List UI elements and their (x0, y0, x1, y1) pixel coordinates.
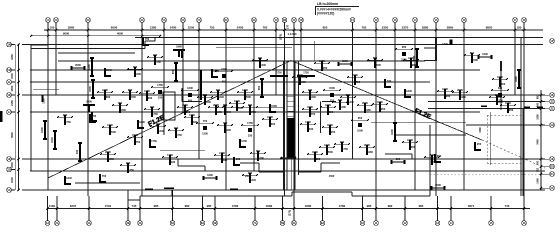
svg-text:2000: 2000 (75, 63, 81, 67)
svg-text:1160: 1160 (49, 204, 56, 208)
svg-text:1M: 1M (7, 68, 12, 72)
svg-text:D2: D2 (550, 165, 554, 169)
svg-text:750: 750 (203, 119, 208, 123)
svg-text:3A: 3A (86, 18, 90, 22)
svg-text:1230: 1230 (205, 100, 211, 104)
svg-text:330: 330 (338, 98, 343, 102)
svg-text:982: 982 (185, 204, 190, 208)
niche label right (329, 175, 335, 178)
svg-text:9000: 9000 (63, 32, 70, 36)
svg-text:900: 900 (153, 53, 158, 57)
svg-text:2400: 2400 (170, 26, 177, 30)
bottom edge wall pieces (145, 187, 238, 196)
svg-text:10: 10 (361, 221, 365, 225)
interior line y122 (371, 122, 466, 124)
svg-text:2000: 2000 (105, 150, 111, 154)
right diagonal label (413, 107, 432, 121)
svg-text:1500: 1500 (307, 105, 313, 109)
svg-text:900: 900 (411, 145, 416, 149)
building top edge (31, 38, 155, 49)
svg-text:1500: 1500 (342, 59, 348, 63)
svg-text:1500: 1500 (479, 127, 482, 133)
core flank wall right (297, 72, 315, 78)
svg-text:2A: 2A (54, 18, 58, 22)
interior line y47 (216, 47, 292, 49)
svg-text:170: 170 (287, 24, 290, 29)
svg-text:D1: D1 (550, 172, 554, 176)
svg-text:1230: 1230 (497, 99, 503, 103)
svg-text:1230: 1230 (310, 95, 316, 99)
svg-text:1750: 1750 (167, 153, 173, 157)
grid line C (22, 189, 545, 191)
svg-text:1750: 1750 (152, 112, 158, 116)
svg-text:1340: 1340 (242, 88, 248, 92)
svg-text:1960: 1960 (514, 76, 518, 82)
top dimension line (44, 29, 543, 31)
svg-text:1960: 1960 (365, 108, 371, 112)
right dimension line (540, 90, 549, 190)
svg-text:762: 762 (537, 167, 540, 172)
svg-text:1500: 1500 (329, 175, 335, 178)
svg-text:330: 330 (498, 86, 503, 90)
grid line L (30, 81, 430, 83)
svg-text:330: 330 (248, 134, 253, 138)
svg-text:330: 330 (203, 93, 208, 97)
svg-text:650: 650 (329, 110, 334, 114)
interior line y183 (75, 182, 140, 184)
left bubble leaders (11, 45, 15, 191)
svg-text:16: 16 (522, 221, 526, 225)
svg-text:1200: 1200 (135, 72, 141, 76)
svg-text:750: 750 (102, 174, 107, 178)
svg-text:6A: 6A (181, 18, 185, 22)
svg-text:1200: 1200 (120, 108, 126, 112)
left diagonal label (147, 114, 166, 128)
svg-text:1340: 1340 (66, 176, 72, 180)
svg-text:1C: 1C (7, 188, 11, 192)
interior vline 490 (489, 112, 491, 165)
svg-text:1200: 1200 (225, 128, 231, 132)
svg-text:2000: 2000 (245, 95, 251, 99)
top dimension numbers (50, 26, 522, 30)
svg-text:1500: 1500 (10, 162, 14, 168)
svg-text:2200: 2200 (188, 26, 195, 30)
left frame mark (0, 111, 3, 122)
svg-text:1400: 1400 (537, 178, 540, 184)
svg-text:12: 12 (403, 221, 407, 225)
svg-text:1340: 1340 (107, 123, 113, 127)
svg-text:1750: 1750 (128, 168, 134, 172)
svg-text:985: 985 (154, 204, 159, 208)
svg-text:7A: 7A (253, 221, 257, 225)
stepped wall outline stair entry (178, 159, 205, 171)
svg-text:7B: 7B (281, 221, 285, 225)
svg-text:1500: 1500 (10, 73, 14, 79)
bottom grid axis bubbles (45, 221, 526, 226)
svg-text:1340: 1340 (406, 89, 412, 93)
right grid axis bubbles (550, 39, 555, 191)
svg-text:2000: 2000 (435, 183, 441, 187)
svg-text:7A: 7A (197, 18, 201, 22)
svg-text:750: 750 (145, 37, 150, 41)
svg-text:3250: 3250 (10, 54, 14, 60)
svg-text:4080: 4080 (305, 204, 312, 208)
svg-text:250: 250 (381, 107, 386, 111)
svg-text:1960: 1960 (327, 123, 333, 127)
svg-text:900: 900 (63, 113, 68, 117)
svg-text:1750: 1750 (219, 151, 225, 155)
svg-text:1380: 1380 (150, 26, 157, 30)
svg-text:750: 750 (136, 140, 141, 144)
svg-text:6000: 6000 (111, 26, 118, 30)
svg-text:750: 750 (210, 26, 215, 30)
svg-text:J2: J2 (550, 100, 554, 104)
upper interior line (58, 60, 425, 62)
svg-text:985: 985 (419, 204, 424, 208)
svg-text:250: 250 (396, 157, 401, 161)
svg-text:4A: 4A (140, 18, 144, 22)
svg-text:985: 985 (207, 204, 212, 208)
svg-text:1A: 1A (46, 221, 50, 225)
bottom bubble stems (48, 196, 525, 221)
svg-text:330: 330 (308, 88, 313, 92)
left dimension line (15, 43, 19, 191)
svg-text:750: 750 (356, 80, 361, 84)
svg-text:2000: 2000 (327, 150, 333, 154)
right wing interior walls (481, 61, 543, 110)
svg-text:330: 330 (148, 96, 153, 100)
svg-text:900: 900 (126, 161, 131, 165)
svg-text:100: 100 (50, 26, 55, 30)
svg-text:985: 985 (367, 204, 372, 208)
svg-text:1K: 1K (550, 93, 554, 97)
top-center note block (315, 2, 359, 15)
svg-text:900: 900 (446, 94, 451, 98)
svg-text:330: 330 (412, 55, 416, 60)
svg-text:2000: 2000 (110, 130, 116, 134)
svg-text:4782: 4782 (232, 204, 239, 208)
vertical grid lines (48, 23, 524, 196)
svg-text:850: 850 (323, 26, 328, 30)
svg-text:1230: 1230 (50, 137, 54, 143)
svg-text:1200: 1200 (325, 103, 331, 107)
svg-text:6B: 6B (213, 221, 217, 225)
interior wall line right mid (385, 154, 412, 159)
svg-text:650: 650 (358, 116, 363, 120)
grid line H (466, 124, 545, 126)
interior line y135r (395, 134, 466, 136)
thick wall stub axis 6 (181, 50, 183, 58)
svg-text:1750: 1750 (276, 72, 282, 75)
svg-text:2000: 2000 (362, 101, 368, 105)
svg-text:1500: 1500 (375, 63, 381, 67)
axis gap label top (279, 24, 297, 40)
svg-text:1750: 1750 (342, 147, 348, 151)
interior vline 430 (429, 125, 431, 196)
svg-text:330: 330 (193, 120, 198, 124)
svg-text:750: 750 (433, 160, 438, 164)
svg-text:2000: 2000 (364, 143, 370, 147)
svg-text:6A: 6A (201, 221, 205, 225)
svg-text:1N: 1N (7, 43, 11, 47)
svg-text:(#####120): (#####120) (317, 11, 334, 15)
svg-text:1P: 1P (550, 39, 554, 43)
svg-text:1340: 1340 (324, 143, 330, 147)
svg-text:2860: 2860 (447, 26, 454, 30)
stepped wall outline left of core (240, 163, 284, 172)
svg-text:650: 650 (271, 122, 276, 126)
svg-text:3B: 3B (126, 221, 130, 225)
svg-text:250: 250 (156, 122, 161, 126)
svg-text:180: 180 (517, 26, 522, 30)
svg-text:1960: 1960 (216, 110, 222, 114)
thick walls top-right room (424, 38, 453, 61)
svg-text:650: 650 (402, 45, 407, 49)
bottom dimension numbers (49, 204, 510, 208)
svg-text:14: 14 (413, 18, 417, 22)
svg-text:1230: 1230 (218, 95, 224, 99)
svg-text:250: 250 (223, 103, 228, 107)
top grid axis bubbles (46, 18, 527, 23)
svg-text:1K: 1K (7, 93, 11, 97)
bottom building edge (140, 192, 430, 196)
svg-text:8820: 8820 (486, 26, 493, 30)
svg-text:1500: 1500 (130, 95, 136, 99)
svg-text:1340: 1340 (482, 52, 488, 56)
grid line N (22, 44, 543, 46)
svg-text:650: 650 (128, 88, 133, 92)
svg-text:250: 250 (509, 108, 514, 112)
svg-text:750: 750 (311, 112, 316, 116)
svg-text:1200: 1200 (267, 115, 273, 119)
svg-text:1960: 1960 (182, 103, 188, 107)
top dimension tier 2 (30, 32, 161, 37)
svg-text:1750: 1750 (176, 133, 182, 137)
upper boundary line (135, 37, 543, 39)
svg-text:1L: 1L (7, 80, 11, 84)
svg-text:2000: 2000 (297, 73, 303, 77)
svg-text:1750: 1750 (65, 120, 71, 124)
svg-text:1H: 1H (550, 123, 554, 127)
L-corner wall mid-right (321, 102, 337, 134)
left dimension numbers (10, 54, 14, 183)
svg-text:4080: 4080 (266, 204, 273, 208)
svg-text:250: 250 (316, 157, 321, 161)
svg-text:3400: 3400 (537, 139, 540, 145)
grid line E (22, 158, 545, 160)
svg-text:1-0.030: 1-0.030 (288, 32, 297, 36)
svg-text:900: 900 (150, 105, 155, 109)
interior line y150 (160, 149, 205, 151)
svg-text:1340: 1340 (442, 42, 448, 46)
svg-text:17: 17 (513, 18, 517, 22)
svg-text:1650: 1650 (10, 85, 14, 91)
svg-text:1200: 1200 (221, 67, 227, 71)
svg-text:250: 250 (346, 93, 351, 97)
svg-text:762: 762 (362, 26, 367, 30)
left diagonal slope line (48, 61, 291, 179)
svg-text:650: 650 (222, 80, 227, 84)
svg-text:9A: 9A (252, 18, 256, 22)
bottom-left step (128, 190, 140, 200)
svg-text:250: 250 (323, 66, 328, 70)
interior vline 521 (520, 38, 522, 197)
svg-text:1J: 1J (7, 110, 11, 114)
svg-text:12: 12 (374, 18, 378, 22)
svg-text:1500: 1500 (88, 86, 92, 92)
svg-text:250: 250 (331, 130, 336, 134)
svg-text:900: 900 (236, 157, 241, 161)
svg-text:745: 745 (505, 204, 510, 208)
svg-text:1960: 1960 (319, 59, 325, 63)
svg-text:330: 330 (216, 88, 221, 92)
svg-text:1340: 1340 (234, 99, 240, 103)
svg-text:750: 750 (223, 121, 228, 125)
top bubble stems (48, 22, 524, 30)
niche label left (245, 175, 251, 178)
svg-text:(170): (170) (279, 34, 283, 40)
svg-text:11: 11 (375, 221, 378, 225)
right dimension numbers (537, 94, 540, 183)
svg-text:760: 760 (537, 102, 540, 107)
svg-text:1650: 1650 (537, 114, 540, 120)
grid line J (30, 111, 480, 113)
svg-text:330: 330 (158, 96, 163, 100)
svg-text:1960: 1960 (312, 150, 318, 154)
svg-text:750: 750 (92, 114, 97, 118)
svg-text:4782: 4782 (339, 204, 346, 208)
svg-text:750: 750 (118, 101, 123, 105)
svg-text:650: 650 (257, 85, 261, 90)
svg-text:650: 650 (470, 51, 475, 55)
svg-text:1500: 1500 (271, 104, 277, 108)
svg-text:1500: 1500 (429, 153, 435, 157)
svg-text:10: 10 (274, 18, 278, 22)
svg-text:1750: 1750 (247, 121, 253, 125)
svg-text:1960: 1960 (505, 101, 511, 105)
svg-text:8A: 8A (224, 18, 228, 22)
stepped wall outline right of core (299, 163, 341, 172)
shaft vertical line (313, 41, 315, 61)
svg-text:1340: 1340 (158, 129, 164, 133)
shear wall clusters (40, 37, 521, 190)
svg-text:1960: 1960 (377, 100, 383, 104)
svg-text:1B: 1B (283, 18, 287, 22)
svg-text:1200: 1200 (207, 173, 213, 177)
svg-text:650: 650 (171, 69, 175, 74)
svg-text:900: 900 (248, 103, 253, 107)
svg-text:2000: 2000 (457, 88, 463, 92)
core flank wall left (270, 72, 288, 78)
thick wall axis 7 (200, 70, 202, 100)
svg-text:2150: 2150 (10, 100, 14, 106)
svg-text:2370: 2370 (402, 26, 409, 30)
svg-text:650: 650 (501, 82, 506, 86)
svg-text:1960: 1960 (367, 150, 373, 154)
svg-text:900: 900 (174, 126, 179, 130)
svg-text:1750: 1750 (303, 72, 309, 75)
svg-text:1E: 1E (7, 157, 11, 161)
svg-text:762: 762 (263, 26, 268, 30)
svg-text:1230: 1230 (340, 105, 346, 109)
svg-text:1340: 1340 (87, 64, 91, 70)
right lower dashed room (487, 108, 523, 196)
svg-text:1750: 1750 (151, 139, 157, 143)
svg-text:250: 250 (186, 110, 191, 114)
svg-text:LB h=200mm: LB h=200mm (317, 2, 338, 6)
svg-text:1340: 1340 (260, 63, 266, 67)
svg-text:2400: 2400 (10, 177, 14, 183)
left building edge (31, 45, 48, 171)
left grid axis bubbles (7, 42, 12, 192)
svg-text:1230: 1230 (102, 88, 108, 92)
svg-text:2A: 2A (55, 221, 59, 225)
svg-text:750: 750 (256, 149, 261, 153)
svg-text:5A: 5A (162, 18, 166, 22)
interior line y53 (58, 52, 135, 54)
svg-text:1750: 1750 (305, 120, 311, 124)
svg-text:8A: 8A (292, 221, 296, 225)
svg-text:745: 745 (132, 204, 137, 208)
svg-text:J1: J1 (550, 107, 554, 111)
svg-text:4A: 4A (138, 221, 142, 225)
L-corner wall mid-left (182, 88, 202, 102)
svg-text:4791: 4791 (105, 204, 112, 208)
svg-text:1230: 1230 (407, 138, 413, 142)
svg-text:3960: 3960 (68, 26, 75, 30)
grid line M (30, 69, 480, 71)
svg-text:900: 900 (188, 99, 193, 103)
svg-text:13: 13 (393, 18, 397, 22)
wing dim label (479, 127, 482, 133)
svg-text:1750: 1750 (157, 83, 163, 87)
axis gap label bottom (288, 210, 292, 216)
svg-text:5A: 5A (171, 221, 175, 225)
svg-text:1960: 1960 (460, 95, 466, 99)
svg-text:1750: 1750 (250, 110, 256, 114)
svg-text:1750: 1750 (155, 60, 161, 64)
svg-text:1200: 1200 (390, 129, 394, 135)
svg-text:4600: 4600 (117, 32, 124, 36)
svg-text:1D: 1D (299, 18, 303, 22)
svg-text:900: 900 (106, 95, 111, 99)
svg-text:1340: 1340 (348, 100, 354, 104)
svg-text:2450: 2450 (237, 26, 244, 30)
svg-text:250: 250 (248, 171, 253, 175)
svg-text:1500: 1500 (472, 58, 478, 62)
grid line J1 (428, 108, 545, 110)
svg-text:1230: 1230 (241, 139, 247, 143)
svg-text:330: 330 (309, 127, 314, 131)
svg-text:15: 15 (489, 221, 493, 225)
svg-text:2350: 2350 (382, 26, 389, 30)
svg-text:1230: 1230 (187, 86, 193, 90)
svg-text:330: 330 (171, 160, 176, 164)
svg-text:4871: 4871 (468, 204, 475, 208)
svg-text:1960: 1960 (108, 157, 114, 161)
svg-text:1200: 1200 (497, 75, 503, 79)
svg-text:982: 982 (388, 204, 393, 208)
grid line D (30, 170, 545, 172)
central party walls with stair core (280, 61, 299, 190)
svg-text:11: 11 (351, 18, 354, 22)
svg-text:1C: 1C (550, 186, 554, 190)
svg-text:1200: 1200 (40, 127, 44, 133)
svg-text:900: 900 (340, 140, 345, 144)
bottom dimension line (46, 207, 530, 209)
left wing interior walls (33, 89, 97, 122)
svg-text:1750: 1750 (144, 89, 150, 93)
